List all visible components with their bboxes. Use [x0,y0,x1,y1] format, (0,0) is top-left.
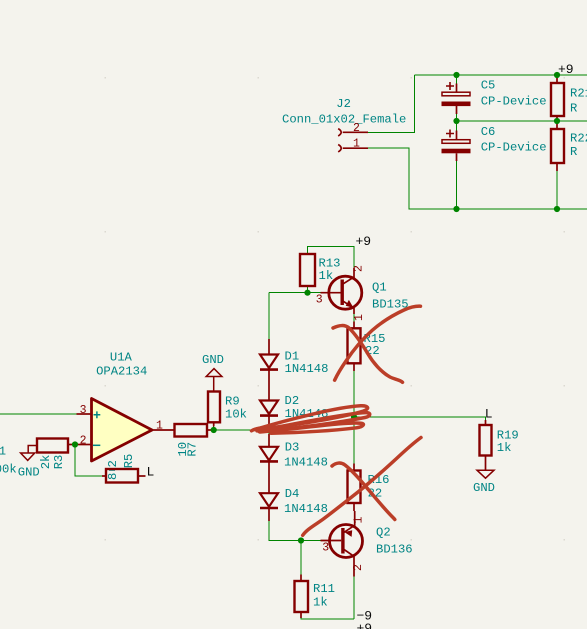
grid dots [105,77,566,541]
junction R7/R9 node [211,427,217,433]
R16 top pin [353,464,355,471]
junction bottom rail / C6 [453,206,459,212]
junction Q2 base/R11 [298,537,304,543]
capacitor C5 [442,78,547,114]
resistor R9 [208,392,247,427]
transistor Q1 BD135 [316,265,409,321]
R11 bottom pin [300,612,302,618]
svg-text:R7: R7 [186,442,200,457]
resistor R19 [480,420,519,470]
junction mid rail / R21-R22 [554,118,560,124]
C5 top plate [442,92,470,96]
resistor R3 [37,439,72,470]
wire Q1 base [269,292,321,294]
Q2 emitter line [343,511,354,533]
wire mid rail [457,120,587,122]
svg-text:C6: C6 [481,125,496,139]
svg-text:1N4148: 1N4148 [284,502,328,516]
D4 bottom pin [268,508,270,521]
svg-text:1: 1 [353,314,366,321]
svg-text:RV1: RV1 [0,445,6,459]
svg-text:R: R [570,102,577,116]
svg-text:R11: R11 [313,582,335,596]
J2 pin 1 socket [338,145,341,152]
svg-text:100k: 100k [0,462,17,476]
svg-text:1: 1 [353,517,366,524]
svg-text:1k: 1k [319,269,334,283]
svg-text:U1A: U1A [110,350,133,364]
junction R13/Q1 base [304,290,310,296]
J2 pin 2 socket [338,129,341,136]
D2 bottom pin [268,416,270,426]
J2 pin 1 line [343,147,368,149]
GND triangle (inverted) [206,369,222,377]
resistor R7 [175,424,212,457]
Q2 base pin [321,540,342,542]
GND triangle [477,470,494,478]
resistor R11 [295,575,335,619]
R15 top pin [353,322,355,329]
svg-text:2: 2 [353,122,360,135]
wire R11 top [300,541,302,576]
svg-text:2: 2 [80,434,87,447]
svg-text:CP-Device: CP-Device [481,95,547,109]
svg-text:1N4148: 1N4148 [284,456,328,470]
svg-text:R22: R22 [570,132,587,146]
D3 bottom pin [268,461,270,493]
wire node A on diode chain [268,424,270,436]
junction bottom rail / R22 [554,206,560,212]
wire feedback to R5 [75,445,103,477]
R5 right pin [138,475,146,477]
junction output node [351,414,357,420]
D4 cathode bar [260,507,278,510]
wire Q2 base node [301,540,321,542]
R22 top pin [556,121,558,129]
Q1 base bar [341,280,344,306]
svg-text:Q1: Q1 [372,281,387,295]
R19 top pin [485,420,487,425]
wire R13 top rail [308,247,355,269]
wire C5 bottom node [456,113,458,121]
R22 bottom pin [556,163,558,171]
svg-text:3: 3 [316,293,323,306]
op-amp U1A OPA2134 [77,350,175,461]
R9 bottom pin [213,422,215,426]
C5 bottom plate [442,102,471,107]
wire R15 bottom to output node [353,370,355,417]
U1A plus mark [94,411,101,418]
svg-text:R9: R9 [225,395,240,409]
wire input to op-amp pin3 [0,413,77,415]
R11 top pin [300,575,302,582]
J2 pin 2 line [343,131,368,133]
svg-text:D2: D2 [285,394,300,408]
svg-text:+9: +9 [356,234,372,249]
svg-text:GND: GND [202,353,224,367]
resistor R5 [102,454,146,483]
svg-text:R3: R3 [52,455,66,470]
wire R7 to node A [208,429,269,431]
wire J2 pin1 to bottom rail [368,148,457,209]
wire C5 top [456,75,458,85]
svg-text:3: 3 [322,542,329,555]
svg-text:Conn_01x02_Female: Conn_01x02_Female [282,112,406,126]
D3 cathode bar [260,460,278,463]
svg-text:2k: 2k [39,455,53,470]
C5 top pin [456,84,458,93]
junction top rail / R21 [554,72,560,78]
value 8.2 of R5 (rotated) [106,460,120,480]
D4 body [260,493,278,507]
U1A pin 1 output [152,429,175,431]
ground GND above R9 [202,353,224,391]
junction top rail / C5 [453,72,459,78]
wire R13 bottom [307,286,309,293]
transistor Q2 BD136 [321,511,413,577]
diode D3 [260,434,328,493]
C6 top plate [442,140,470,144]
svg-text:10k: 10k [225,408,247,422]
wire R9 bottom [213,425,215,430]
D2 body [260,401,278,415]
resistor R16 [348,464,390,512]
wire diode chain top [268,293,270,340]
svg-text:Q2: Q2 [376,526,391,540]
R7 right pin [207,429,211,431]
svg-text:OPA2134: OPA2134 [96,365,147,379]
svg-text:1: 1 [156,419,163,432]
GND stub [213,377,215,392]
wire +9 top rail [415,74,587,76]
GND step [28,446,37,454]
svg-text:L: L [485,407,493,422]
ground GND at R3 [18,446,40,480]
wire output to L / R19 [354,417,486,421]
resistor R21 [551,75,587,121]
svg-text:J2: J2 [336,97,351,111]
Q2 emitter arrow [344,530,352,537]
svg-text:8: 8 [106,473,120,480]
svg-text:D3: D3 [285,440,300,454]
svg-text:+9: +9 [357,621,373,629]
wire C6 bottom [456,160,458,209]
svg-text:CP-Device: CP-Device [481,141,547,155]
D1 body [260,355,278,369]
R21 bottom pin [556,116,558,121]
wire op-amp pin2 node [70,444,78,446]
svg-text:2: 2 [353,265,366,272]
C6 top pin [456,131,458,140]
resistor R13 [300,254,340,286]
Q2 collector line [343,549,354,577]
R3 right pin [68,444,72,446]
D1 cathode bar [260,368,278,371]
svg-text:D4: D4 [285,487,300,501]
D3 body [260,447,278,461]
junction diode chain node A [266,427,272,433]
D1 top pin [268,339,270,355]
Q1 emitter line [343,301,354,314]
diode D4 [260,487,328,521]
svg-text:3: 3 [80,404,87,417]
annotation scribble X over R15 [333,326,403,383]
svg-text:+9: +9 [558,62,574,77]
svg-text:R: R [570,145,577,159]
svg-text:2: 2 [352,564,365,571]
wire Q2 collector to -9 [353,576,355,619]
svg-text:C5: C5 [481,78,496,92]
svg-text:BD136: BD136 [376,543,413,557]
C5 bottom pin [456,106,458,114]
potentiometer RV1 (off-canvas, labels only) [0,445,17,477]
svg-text:1N4148: 1N4148 [285,362,329,376]
annotation scribble X over R16 [303,438,421,536]
svg-text:R21: R21 [570,86,587,100]
svg-text:L: L [147,465,155,480]
connector J2 [282,97,406,152]
svg-text:1: 1 [353,138,360,151]
wire R22 bottom [556,170,558,209]
resistor R22 [551,121,587,171]
wire R11 bottom to -9 [301,618,354,619]
R5 left pin [102,475,106,477]
wire Q1 emitter to R15 [353,313,355,322]
R16 bottom pin [353,503,355,511]
junction mid rail / C5-C6 [453,118,459,124]
diode D1 [260,339,328,401]
R15 bottom pin [353,363,355,371]
junction op-amp pin2 node [72,441,78,447]
C6 bottom pin [456,153,458,161]
ground GND below R19 [473,470,495,495]
wire bottom rail [457,208,587,210]
D1 bottom pin [268,370,270,401]
R21 top pin [556,75,558,83]
D3 top pin [268,434,270,447]
R19 bottom pin [485,456,487,471]
wire output node to R16 [353,417,355,464]
U1A minus mark [93,444,100,446]
wire diode chain bottom [269,520,301,541]
diode D2 [260,394,328,426]
U1A pin 2 [78,444,92,446]
wire C6 top [456,121,458,131]
svg-text:1k: 1k [313,596,328,610]
resistor R15 [348,322,386,372]
Q1 circle [329,276,362,309]
Q2 base bar [341,528,344,554]
wire J2 pin2 vertical [368,75,415,132]
svg-text:2: 2 [106,460,120,467]
C6 bottom plate [442,149,471,154]
Q1 emitter arrow [346,300,354,308]
GND triangle [21,453,35,460]
D2 cathode bar [260,414,278,417]
C6 plus sign [446,130,454,138]
C5 plus sign [446,82,454,90]
capacitor C6 [442,125,547,161]
Q2 circle [330,525,363,558]
U1A body [92,399,153,462]
svg-text:1k: 1k [497,441,512,455]
svg-text:GND: GND [18,465,40,479]
U1A pin 3 [77,413,92,415]
svg-text:R5: R5 [122,454,136,469]
annotation scribble over node A wire [252,406,370,433]
Q1 collector line [343,268,354,284]
Q1 base pin [321,292,341,294]
svg-text:GND: GND [473,481,495,495]
